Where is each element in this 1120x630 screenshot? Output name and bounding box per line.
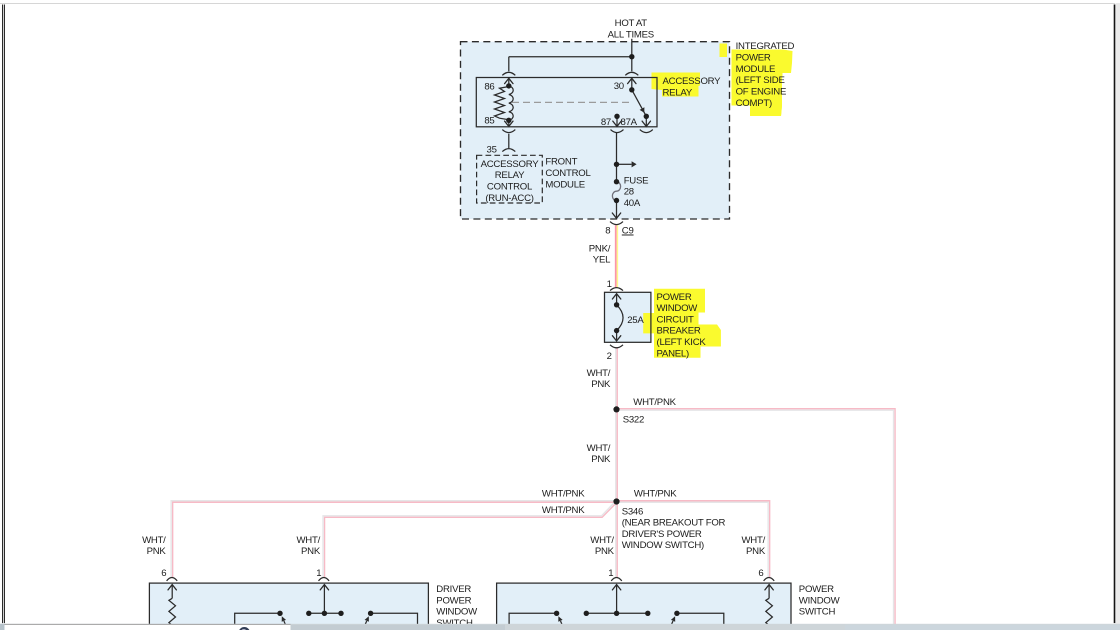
svg-text:WINDOW: WINDOW	[657, 303, 699, 314]
svg-text:CONTROL: CONTROL	[545, 168, 591, 179]
svg-text:6: 6	[161, 568, 166, 579]
svg-text:WHT/: WHT/	[142, 535, 166, 546]
svg-text:2: 2	[607, 351, 612, 362]
svg-text:POWER: POWER	[799, 584, 834, 595]
svg-text:(LEFT SIDE: (LEFT SIDE	[736, 75, 785, 86]
svg-text:1: 1	[607, 279, 612, 290]
svg-text:PNK: PNK	[301, 546, 321, 557]
svg-text:(NEAR BREAKOUT FOR: (NEAR BREAKOUT FOR	[622, 518, 726, 529]
svg-text:6: 6	[758, 568, 763, 579]
svg-text:PNK: PNK	[595, 546, 615, 557]
svg-text:85: 85	[484, 116, 494, 127]
svg-text:PNK: PNK	[591, 379, 611, 390]
svg-text:RELAY: RELAY	[495, 170, 525, 181]
svg-text:WINDOW: WINDOW	[436, 607, 478, 618]
svg-text:PNK: PNK	[591, 454, 611, 465]
svg-text:PNK: PNK	[147, 546, 167, 557]
svg-text:WHT/: WHT/	[587, 443, 611, 454]
svg-text:POWER: POWER	[736, 53, 771, 64]
svg-text:WHT/: WHT/	[296, 535, 320, 546]
svg-text:POWER: POWER	[436, 595, 471, 606]
svg-text:ALL TIMES: ALL TIMES	[608, 30, 654, 41]
svg-text:PANEL): PANEL)	[657, 348, 689, 359]
svg-text:MODULE: MODULE	[736, 64, 776, 75]
svg-text:C9: C9	[622, 226, 634, 237]
svg-text:INTEGRATED: INTEGRATED	[736, 41, 795, 52]
svg-text:S322: S322	[623, 415, 644, 426]
svg-text:PNK/: PNK/	[589, 243, 611, 254]
svg-text:WHT/PNK: WHT/PNK	[542, 505, 585, 516]
svg-text:FUSE: FUSE	[624, 175, 649, 186]
svg-text:CONTROL: CONTROL	[487, 182, 533, 193]
svg-text:BREAKER: BREAKER	[657, 326, 701, 337]
svg-text:WHT/: WHT/	[587, 368, 611, 379]
svg-text:WHT/PNK: WHT/PNK	[542, 489, 585, 500]
svg-text:8: 8	[605, 226, 610, 237]
svg-text:ACCESSORY: ACCESSORY	[663, 76, 722, 87]
svg-text:(LEFT KICK: (LEFT KICK	[657, 337, 707, 348]
svg-text:1: 1	[608, 568, 613, 579]
svg-text:40A: 40A	[624, 198, 641, 209]
svg-text:WINDOW: WINDOW	[799, 595, 841, 606]
svg-text:28: 28	[624, 187, 634, 198]
svg-text:POWER: POWER	[657, 292, 692, 303]
svg-text:YEL: YEL	[593, 255, 611, 266]
svg-text:FRONT: FRONT	[545, 157, 577, 168]
svg-text:S346: S346	[622, 506, 643, 517]
svg-text:WHT/PNK: WHT/PNK	[634, 489, 677, 500]
svg-text:CIRCUIT: CIRCUIT	[657, 314, 695, 325]
svg-text:87: 87	[601, 117, 611, 128]
svg-text:ACCESSORY: ACCESSORY	[481, 159, 540, 170]
svg-text:WHT/PNK: WHT/PNK	[633, 397, 676, 408]
svg-text:SWITCH: SWITCH	[799, 607, 836, 618]
svg-text:1: 1	[316, 568, 321, 579]
svg-text:WHT/: WHT/	[741, 535, 765, 546]
svg-text:PNK: PNK	[746, 546, 766, 557]
svg-text:(RUN-ACC): (RUN-ACC)	[485, 193, 533, 204]
svg-text:30: 30	[614, 81, 624, 92]
svg-text:WINDOW SWITCH): WINDOW SWITCH)	[622, 540, 704, 551]
svg-text:RELAY: RELAY	[663, 88, 693, 99]
svg-text:HOT AT: HOT AT	[615, 18, 648, 29]
svg-text:COMPT): COMPT)	[736, 98, 772, 109]
svg-text:DRIVER: DRIVER	[436, 584, 471, 595]
svg-text:OF ENGINE: OF ENGINE	[736, 87, 787, 98]
svg-text:35: 35	[487, 144, 497, 155]
svg-text:DRIVER'S POWER: DRIVER'S POWER	[622, 529, 702, 540]
svg-text:87A: 87A	[621, 117, 638, 128]
svg-text:MODULE: MODULE	[545, 179, 585, 190]
svg-text:25A: 25A	[627, 315, 644, 326]
svg-text:86: 86	[484, 82, 494, 93]
svg-text:WHT/: WHT/	[590, 535, 614, 546]
